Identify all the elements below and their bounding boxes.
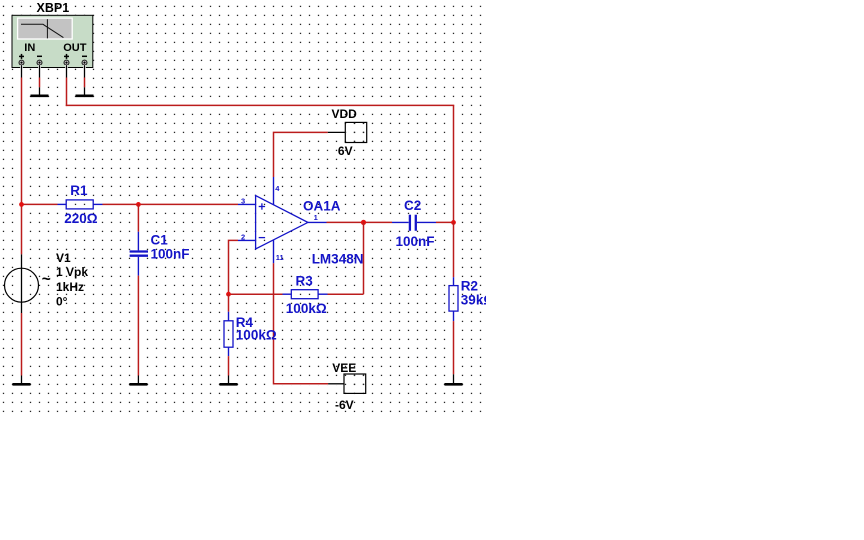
canvas edge mask	[486, 280, 516, 320]
wire feedback vertical (red)	[363, 222, 365, 294]
XBP1 OUT- polarity mark	[82, 55, 87, 57]
svg-text:1kHz: 1kHz	[56, 280, 84, 294]
power VEE box	[344, 374, 366, 393]
svg-text:100nF: 100nF	[151, 246, 190, 261]
XBP1 terminal IN+	[19, 60, 24, 65]
node C2/R2 junction	[451, 220, 456, 225]
ground under R4	[220, 383, 238, 386]
svg-text:2: 2	[241, 232, 245, 241]
svg-text:1 Vpk: 1 Vpk	[56, 265, 88, 279]
wire XBP1 IN- to ground (red)	[39, 78, 41, 88]
capacitor C2	[392, 215, 436, 231]
wire XBP1 IN- ground stub (black)	[39, 87, 41, 95]
wire V1 ground stub (black)	[21, 376, 23, 384]
wire R4 ground stub (black)	[228, 376, 230, 384]
svg-text:100nF: 100nF	[396, 234, 435, 249]
op-amp pin 11 stub	[273, 240, 275, 263]
resistor R1	[58, 200, 103, 209]
op-amp pin 4 stub	[273, 177, 275, 205]
svg-text:100kΩ: 100kΩ	[286, 301, 327, 316]
resistor R4	[224, 312, 233, 356]
grid dots inside component boxes (restored)	[75, 123, 454, 385]
op-amp pin 1 output stub	[308, 221, 327, 223]
svg-text:-6V: -6V	[335, 398, 354, 412]
wire XBP1 OUT- ground stub (black)	[84, 87, 86, 95]
svg-text:1: 1	[314, 213, 318, 222]
op-amp U1 OA1A	[256, 196, 308, 249]
wire R4 to ground (red)	[228, 356, 230, 375]
resistor R3	[283, 290, 328, 299]
svg-text:220Ω: 220Ω	[64, 211, 98, 226]
wire junction down to C1 (red)	[137, 204, 139, 231]
svg-text:R1: R1	[70, 183, 88, 198]
XBP1 OUT+ polarity mark	[64, 54, 69, 59]
wire R3 to feedback node (red)	[229, 293, 283, 295]
ground under XBP1 OUT-	[76, 95, 94, 98]
wire input node to R1 (red)	[22, 203, 58, 205]
wire R2 to ground (red)	[453, 321, 455, 374]
svg-text:~: ~	[42, 271, 51, 288]
XBP1 screen	[18, 18, 73, 39]
wire XBP1 OUT- to ground (red)	[84, 78, 86, 88]
wire output to C2 (red)	[327, 221, 393, 223]
wire pin11 to VEE (red)	[274, 263, 329, 384]
XBP1 IN+ polarity mark	[19, 54, 24, 59]
XBP1 terminal OUT-	[82, 60, 87, 65]
wire XBP1 IN+ stub (black)	[21, 65, 23, 77]
svg-text:R2: R2	[461, 278, 478, 293]
resistor R2	[449, 277, 458, 321]
grid background	[0, 0, 486, 414]
svg-text:LM348N: LM348N	[312, 251, 364, 266]
svg-text:0°: 0°	[56, 294, 68, 308]
svg-text:6V: 6V	[338, 144, 353, 158]
svg-text:R3: R3	[296, 273, 314, 288]
wire underlay (erase grid dots beneath wires)	[21, 65, 455, 385]
svg-text:XBP1: XBP1	[37, 1, 70, 15]
svg-text:OUT: OUT	[63, 42, 86, 54]
svg-text:OA1A: OA1A	[303, 199, 341, 214]
wire XBP1 IN+ to V1 (red)	[21, 78, 23, 255]
svg-text:100kΩ: 100kΩ	[236, 327, 277, 342]
wire top horizontal to R2 branch (red)	[66, 104, 455, 106]
ground under XBP1 IN-	[31, 95, 49, 98]
svg-text:C2: C2	[404, 198, 421, 213]
source V1	[5, 254, 39, 313]
XBP1 terminal IN-	[37, 60, 42, 65]
power VDD box	[345, 122, 366, 142]
wire XBP1 OUT+ down (red)	[66, 78, 68, 107]
XBP1 terminal OUT+	[64, 60, 69, 65]
wire VDD stub (black)	[328, 131, 346, 133]
wire V1 to ground (red)	[21, 313, 23, 376]
instrument XBP1 body	[12, 15, 93, 67]
wire R2 ground stub (black)	[453, 374, 455, 383]
svg-text:11: 11	[276, 253, 284, 262]
node feedback junction	[226, 292, 231, 297]
svg-text:IN: IN	[24, 42, 35, 54]
wire R1 to op-amp + input (red)	[103, 203, 239, 205]
wire XBP1 OUT+ stub (black)	[66, 65, 68, 77]
wire pin4 to VDD (red)	[274, 132, 328, 177]
wire VEE stub (black)	[328, 383, 344, 385]
wire node down to R2 (red)	[453, 222, 455, 277]
svg-text:VDD: VDD	[332, 107, 358, 121]
wire XBP1 OUT- stub (black)	[84, 65, 86, 77]
svg-text:VEE: VEE	[332, 361, 356, 375]
ground under V1	[13, 383, 31, 386]
wire node down to R4 (red)	[228, 294, 230, 312]
capacitor C1	[130, 232, 148, 276]
wire pin2 to feedback node (red)	[229, 240, 239, 294]
wire C1 to ground (red)	[137, 276, 139, 376]
op-amp pin 2 stub	[238, 239, 256, 241]
svg-text:V1: V1	[56, 251, 71, 265]
svg-text:3: 3	[241, 196, 245, 205]
wire R2 branch vertical down (red)	[453, 105, 455, 222]
XBP1 IN- polarity mark	[37, 55, 42, 57]
ground under C1	[129, 383, 147, 386]
wire C2 to R2 node (red)	[436, 221, 454, 223]
node output junction	[361, 220, 366, 225]
node R1/C1 junction	[136, 202, 141, 207]
svg-text:C1: C1	[151, 232, 169, 247]
wire feedback horizontal to R3 (red)	[328, 293, 364, 295]
node input junction	[19, 202, 24, 207]
wire C1 ground stub (black)	[137, 376, 139, 384]
op-amp pin 3 stub	[238, 203, 256, 205]
wire XBP1 IN- stub (black)	[39, 65, 41, 77]
ground under R2	[445, 383, 463, 386]
